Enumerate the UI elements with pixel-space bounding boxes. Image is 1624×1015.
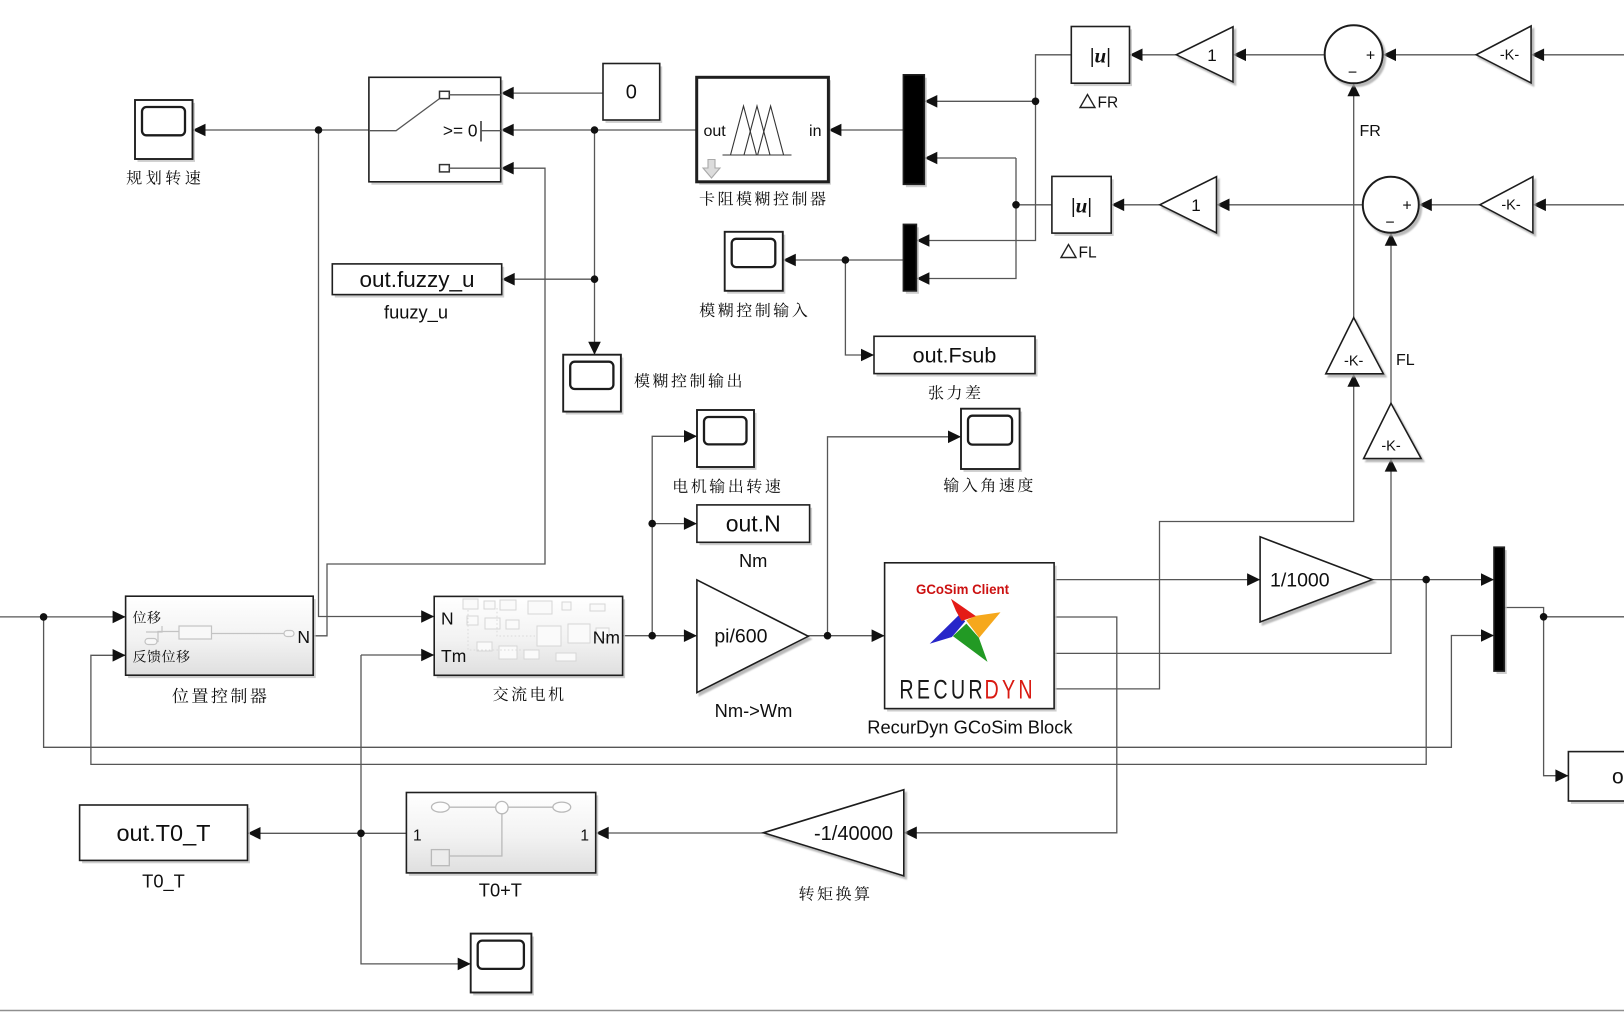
svg-text:0: 0 — [626, 82, 637, 104]
svg-text:-K-: -K- — [1381, 439, 1401, 455]
constant 0 — [606, 66, 663, 123]
gain pi/600 (Nm->Wm) — [697, 580, 808, 693]
status bar separator — [0, 1010, 1624, 1012]
svg-text:FR: FR — [1098, 95, 1119, 112]
sum junction (FL) — [1363, 177, 1419, 233]
wire: gain -K- (right, second) to sum FL, input from canvas edge — [1419, 204, 1480, 206]
svg-text:-K-: -K- — [1500, 48, 1520, 64]
scope 模糊控制输入 — [727, 235, 785, 294]
RecurDyn GCoSim block — [887, 566, 1057, 712]
mux1 (into fuzzy controller) — [906, 78, 927, 188]
svg-text:out.T0_T: out.T0_T — [116, 820, 210, 846]
clipped out block at right edge — [1571, 755, 1624, 804]
wire: displacement command into 位移 input and to right mux input 2 — [0, 616, 126, 618]
wire: mux1 output to fuzzy controller in port — [828, 129, 903, 131]
svg-text:T0+T: T0+T — [479, 880, 522, 901]
svg-text:DYN: DYN — [985, 676, 1036, 706]
wire: RecurDyn output 3 up to -K- gain (FL path) — [1054, 459, 1391, 654]
gain -K- (upward, FL path) — [1364, 403, 1422, 458]
wire FL: vertical into sum FL bottom — [1390, 233, 1392, 403]
svg-text:N: N — [297, 627, 310, 647]
scope 电机输出转速 — [700, 413, 757, 470]
svg-text:|u|: |u| — [1090, 44, 1111, 68]
svg-text:Nm->Wm: Nm->Wm — [715, 700, 793, 721]
svg-text:>= 0: >= 0 — [443, 121, 478, 141]
wire: T0+T output to out.T0_T, AC motor Tm input and bottom scope — [248, 832, 407, 834]
svg-text:T0_T: T0_T — [142, 871, 185, 893]
svg-text:Nm: Nm — [593, 628, 620, 648]
subsystem 位置控制器 — [128, 599, 316, 678]
gain -K- (second right) — [1480, 177, 1533, 233]
wire: constant 0 to switch input 1 — [501, 92, 603, 94]
svg-text:-1/40000: -1/40000 — [814, 823, 893, 845]
svg-text:out: out — [704, 123, 727, 140]
bottom scope (unnamed) — [473, 937, 534, 996]
wire: torque gain -1/40000 output to T0+T input — [596, 832, 764, 834]
out.T0_T block — [82, 808, 250, 863]
svg-text:RECUR: RECUR — [899, 676, 985, 706]
svg-text:out.Fsub: out.Fsub — [913, 344, 997, 368]
svg-text:FR: FR — [1360, 123, 1381, 140]
svg-text:-K-: -K- — [1344, 354, 1364, 370]
wire: gain 1/1000 output to right mux input 1 and feedback to 反馈位移 — [1372, 579, 1494, 581]
junction on switch output — [315, 126, 323, 134]
svg-text:fuuzy_u: fuuzy_u — [384, 302, 448, 324]
svg-text:in: in — [809, 123, 821, 140]
svg-text:out.fuzzy_u: out.fuzzy_u — [359, 267, 474, 292]
svg-text:1: 1 — [580, 827, 589, 844]
svg-text:pi/600: pi/600 — [714, 626, 767, 648]
wire FR: vertical into sum FR bottom — [1353, 83, 1355, 317]
svg-text:-K-: -K- — [1501, 198, 1521, 214]
svg-text:N: N — [441, 609, 454, 629]
wire: pi/600 output to RecurDyn input and angular speed scope — [808, 635, 884, 637]
svg-text:Tm: Tm — [441, 646, 466, 666]
svg-text:FL: FL — [1396, 352, 1415, 369]
scope 规划转速 — [138, 103, 196, 162]
svg-text:|u|: |u| — [1071, 194, 1092, 218]
subsystem T0+T — [409, 795, 598, 875]
wire: switch output to scope and down to AC motor N input — [193, 129, 369, 131]
label △FL — [1061, 245, 1076, 258]
wire: abs FR output to mux1 and mux2 first inputs — [916, 55, 1071, 241]
wire: abs FL output to mux1 and mux2 second inputs — [1016, 204, 1052, 206]
svg-text:−: − — [1348, 65, 1357, 82]
mux2 (into input scope) — [906, 227, 919, 293]
svg-text:FL: FL — [1079, 245, 1097, 262]
gain 1/1000 — [1260, 537, 1372, 622]
wire: right mux output to canvas edge and clipped out block — [1504, 608, 1543, 617]
gain -K- (top right) — [1476, 26, 1531, 83]
svg-text:1: 1 — [1191, 196, 1200, 215]
wire: sum FL to unity gain to abs FL — [1217, 204, 1363, 206]
abs block |u| (FL) — [1054, 179, 1113, 236]
svg-text:−: − — [1385, 215, 1394, 232]
unity gain 1 (second) — [1160, 177, 1217, 233]
abs block |u| (FR) — [1074, 29, 1132, 86]
right mux — [1497, 550, 1507, 674]
gain -1/40000 (转矩换算) — [763, 790, 903, 876]
wire: fuzzy controller out to switch input 2, with taps to out.fuzzy_u and scope — [501, 129, 697, 131]
wire: gain -K- (top right) to sum FR, and its input from canvas edge — [1383, 54, 1476, 56]
wire: sum FR to unity gain to abs FR — [1233, 54, 1325, 56]
out.Fsub block 张力差 — [877, 339, 1038, 376]
svg-text:out.N: out.N — [726, 511, 781, 537]
subsystem 交流电机 — [437, 599, 625, 678]
fuzzy controller block 卡阻模糊控制器 — [699, 80, 831, 185]
wire: RecurDyn output 4 up to -K- gain (FR path) — [1054, 374, 1354, 689]
RecurDyn pinwheel logo — [930, 599, 1001, 662]
scope 输入角速度 — [964, 412, 1023, 472]
svg-text:1/1000: 1/1000 — [1270, 570, 1330, 592]
switch block >= 0 — [371, 80, 503, 185]
svg-text:1: 1 — [1207, 46, 1216, 65]
gain -K- (upward, FR path) — [1326, 318, 1384, 374]
out.N block — [699, 508, 812, 545]
wire: AC motor Nm output to pi/600, out.N and motor speed scope — [623, 635, 697, 637]
out.fuzzy_u block — [335, 267, 504, 298]
wire: mux2 output to input scope and out.Fsub — [783, 259, 904, 261]
svg-text:+: + — [1402, 198, 1411, 215]
svg-text:1: 1 — [413, 827, 422, 844]
svg-text:ou: ou — [1612, 766, 1624, 789]
unity gain 1 (top) — [1176, 27, 1233, 82]
svg-text:GCoSim Client: GCoSim Client — [916, 582, 1009, 597]
wire: RecurDyn output 2 down to torque gain -1/40000 — [904, 617, 1117, 833]
label △FR — [1080, 95, 1095, 108]
sum junction (FR) — [1325, 25, 1383, 83]
svg-text:RecurDyn GCoSim Block: RecurDyn GCoSim Block — [867, 717, 1073, 738]
scope 模糊控制输出 — [566, 358, 624, 415]
wire: position controller N output up to switch input 3 — [313, 168, 545, 636]
svg-text:+: + — [1366, 48, 1375, 65]
svg-text:Nm: Nm — [739, 550, 767, 571]
wire: RecurDyn output 1 to gain 1/1000 — [1054, 579, 1260, 581]
